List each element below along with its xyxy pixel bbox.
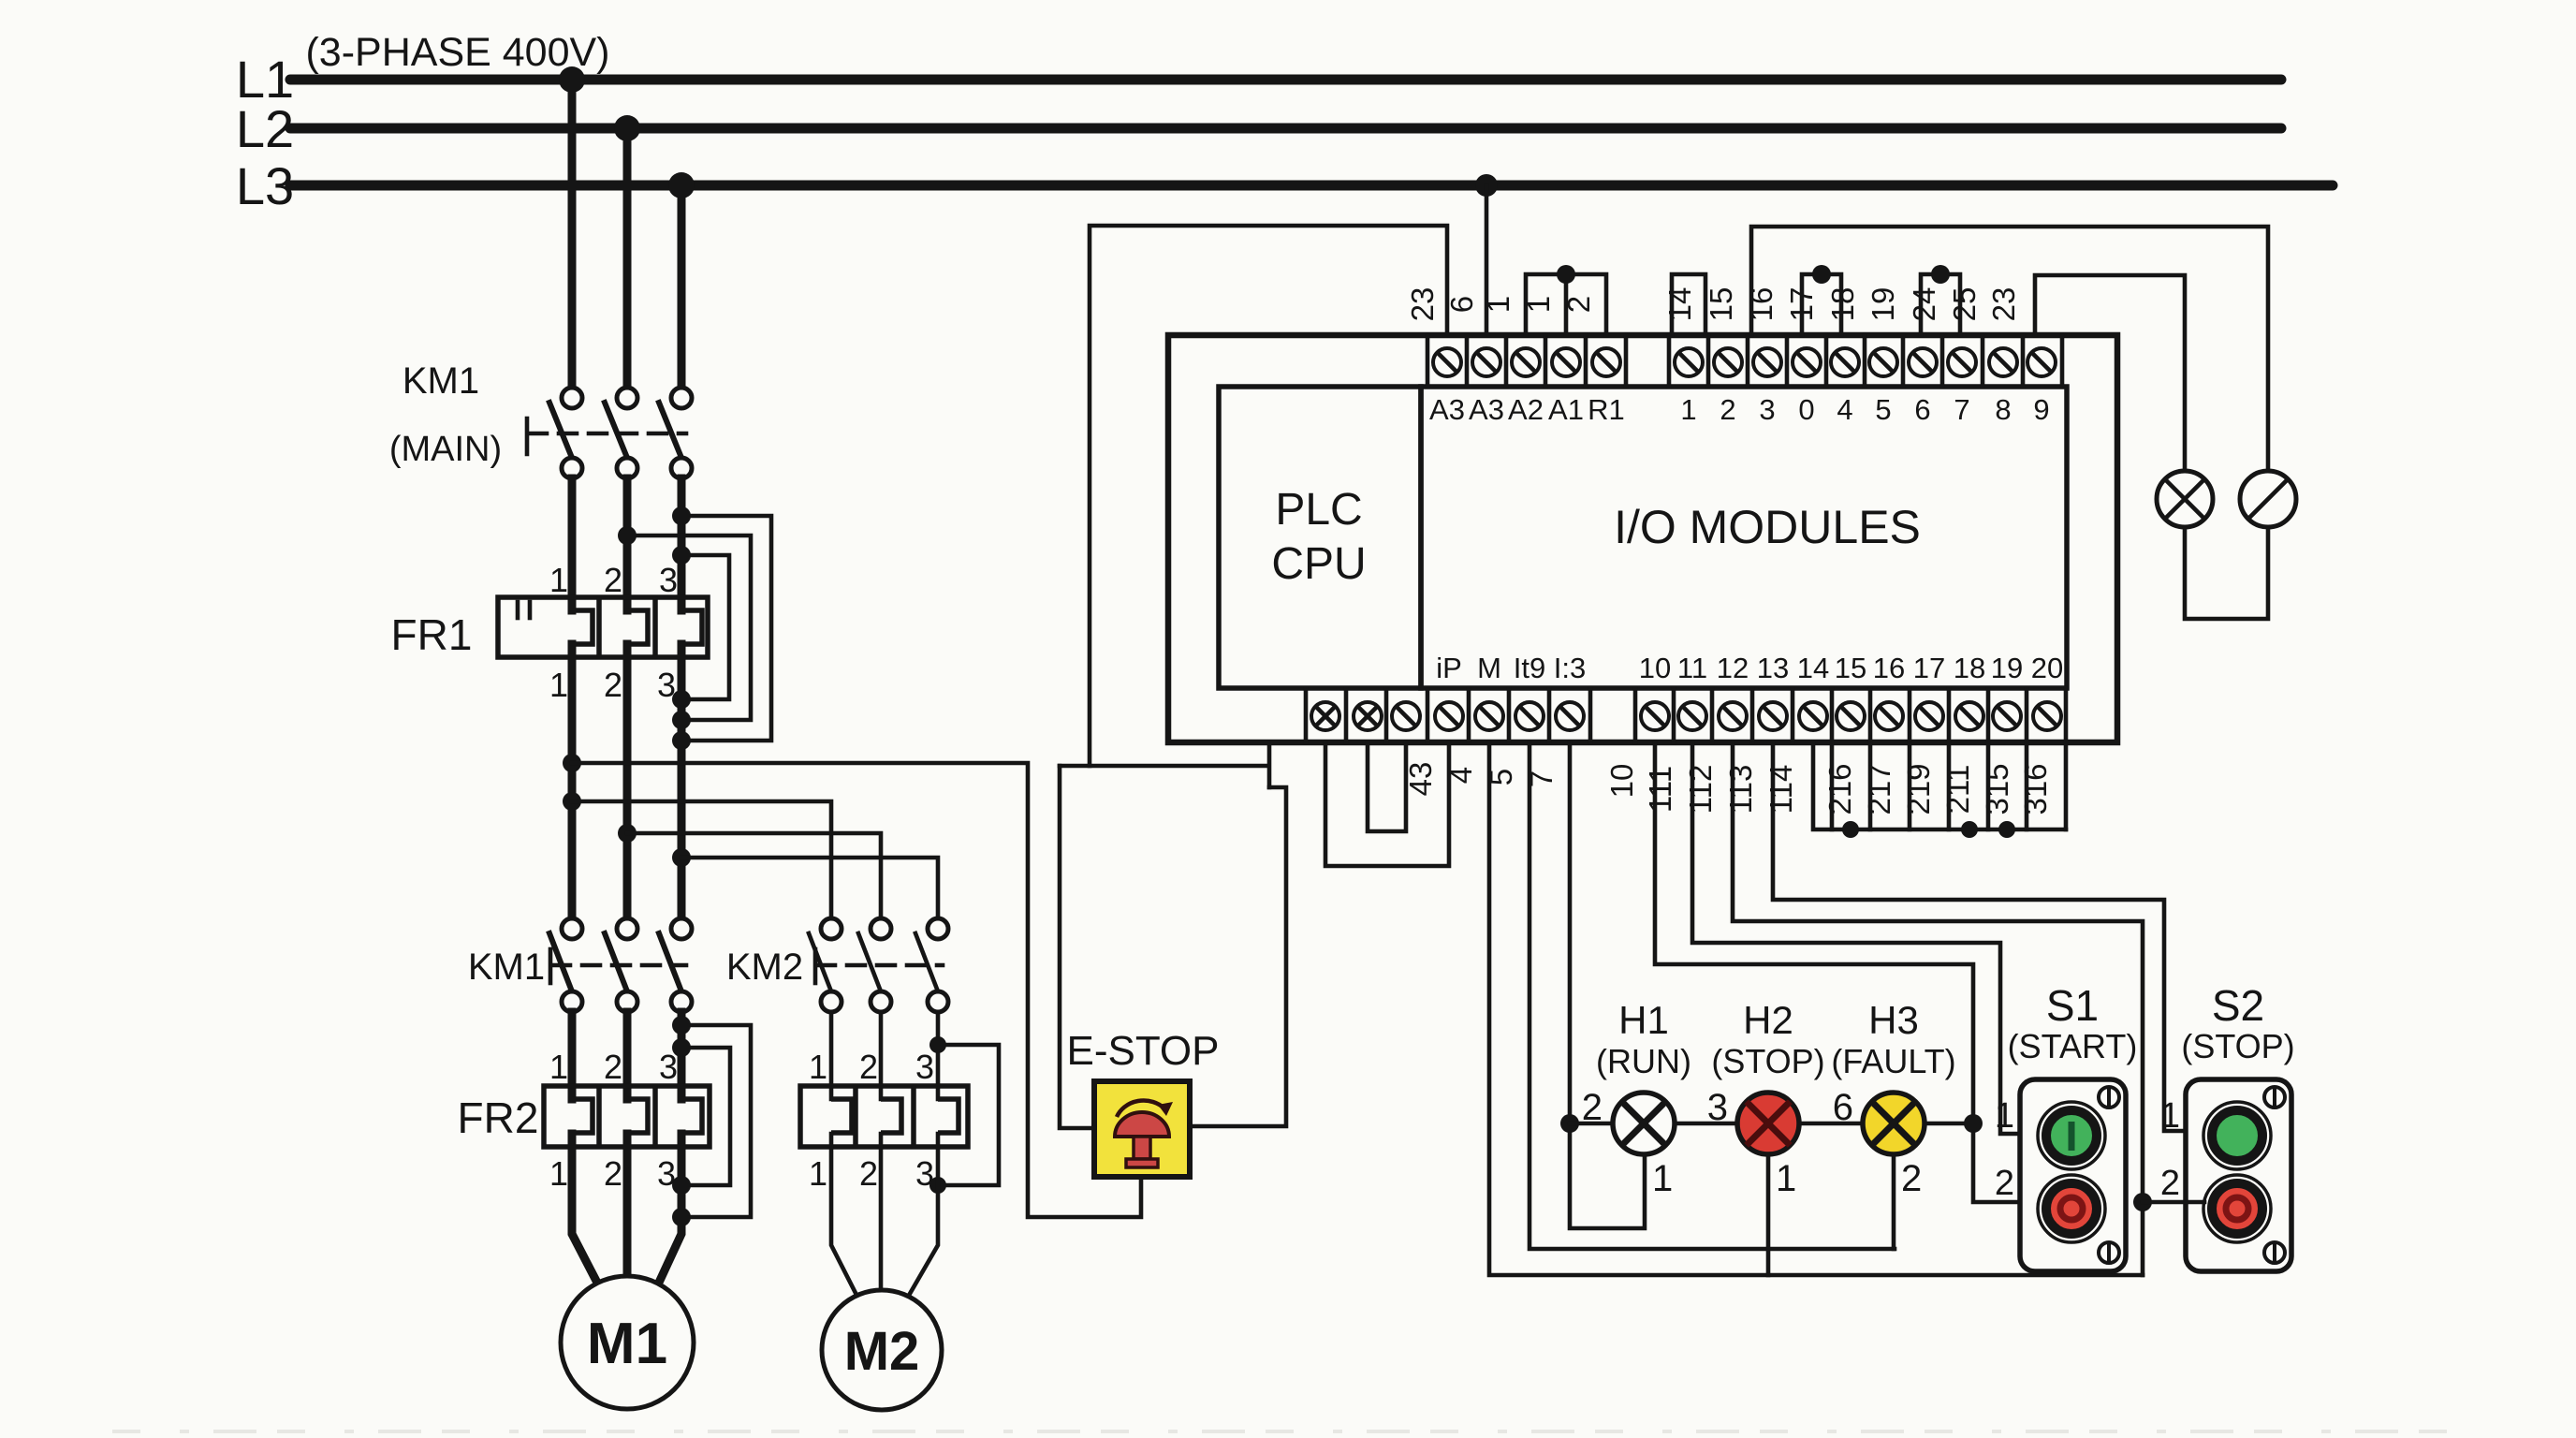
svg-text:2: 2 [1561, 296, 1596, 313]
svg-text:2: 2 [2160, 1164, 2180, 1203]
svg-text:5: 5 [1484, 769, 1518, 785]
wire pole3 FR1 to KM1 [678, 644, 686, 918]
wire FR2 bypass loop inner (pole3) [672, 1038, 730, 1195]
svg-text:16: 16 [1744, 287, 1778, 322]
wire pole1 FR1 to KM1 [568, 644, 577, 918]
svg-text:KM2: KM2 [726, 946, 803, 988]
wire lamp row [1570, 1122, 1973, 1126]
svg-text:112: 112 [1683, 765, 1718, 814]
svg-text:S1: S1 [2046, 981, 2099, 1030]
svg-text:114: 114 [1764, 765, 1798, 814]
KM2 actuator bar [813, 949, 818, 983]
svg-text:43: 43 [1403, 762, 1438, 797]
KM1 actuator bar [549, 949, 553, 983]
node lamp row right (10) [1964, 1114, 1983, 1133]
wire S2 red button feed [2143, 1200, 2204, 1205]
KM1 main actuator bar [525, 418, 530, 454]
svg-text:2: 2 [859, 1048, 878, 1086]
wire pole1 to E-STOP bottom [572, 763, 1141, 1217]
wire terminal 14 stub box [1672, 274, 1705, 335]
wire KM2 pole3 to overload [936, 1012, 941, 1099]
lamp H1 (RUN) [1613, 1093, 1675, 1154]
svg-text:L2: L2 [236, 99, 294, 158]
svg-text:13: 13 [1757, 652, 1789, 684]
PLC top pin labels A3 A3 A2 A1 R1 [1429, 393, 1625, 426]
svg-text:5: 5 [1875, 393, 1891, 426]
svg-text:2: 2 [604, 666, 622, 704]
svg-text:3: 3 [1759, 393, 1775, 426]
wire pole3 to KM2 pole3 [681, 858, 938, 918]
wire L3 drop [678, 185, 686, 388]
wire output 113 to S2 button 1 [1773, 742, 2204, 1131]
motor M1 [561, 1276, 694, 1409]
PLC top terminal cell dividers [1427, 335, 2062, 387]
overload relay FR1 [391, 561, 708, 704]
wire L3 to PLC terminal 6 [1485, 185, 1489, 335]
svg-text:11: 11 [1677, 652, 1707, 684]
svg-text:2: 2 [1582, 1087, 1603, 1128]
wire E-STOP right to PLC bottom [1190, 787, 1286, 1126]
svg-text:7: 7 [1954, 393, 1969, 426]
lamp P1 (crossed) [2157, 471, 2213, 527]
svg-text:1: 1 [1680, 393, 1696, 426]
svg-text:FR1: FR1 [391, 610, 473, 659]
wire terminal U-link screws 2-3 [1368, 742, 1406, 831]
svg-text:2: 2 [1720, 393, 1735, 426]
decorative scan noise [112, 1430, 2481, 1433]
wire outputs 216-316 cells [1813, 742, 2066, 838]
svg-text:4: 4 [1443, 767, 1478, 784]
svg-text:23: 23 [1986, 287, 2021, 322]
svg-text:15: 15 [1704, 287, 1738, 322]
KM1 main pole 1 [549, 388, 582, 478]
PLC bottom pin labels 10..20 [1639, 652, 2063, 684]
svg-text:2: 2 [604, 1048, 622, 1086]
node L3 tap [668, 172, 695, 198]
wire output 5 to H3 bottom [1529, 742, 1895, 1249]
wire FR2 bypass loop outer (pole3) [672, 1016, 751, 1226]
contactor KM2 [726, 918, 948, 1012]
wire terminal 24-25 bracket [1921, 265, 1960, 335]
wire FR1 bypass loop A (pole3) [672, 506, 771, 750]
wire pole2 FR1 to KM1 [623, 644, 632, 918]
KM1 main pole 2 [605, 388, 637, 478]
wire FR1 bypass loop C (pole3) [672, 546, 729, 709]
svg-text:iP: iP [1436, 652, 1462, 684]
svg-text:8: 8 [1995, 393, 2011, 426]
wire E-STOP tee at PLC bottom [1060, 742, 1269, 787]
svg-text:PLC: PLC [1275, 485, 1362, 535]
node S2 red button junction [2133, 1193, 2152, 1211]
svg-text:3: 3 [1707, 1087, 1728, 1128]
svg-text:18: 18 [1825, 287, 1860, 322]
wire overload pole2 to M2 [879, 1134, 884, 1291]
svg-text:4: 4 [1837, 393, 1852, 426]
power rail L1 [236, 50, 2281, 109]
svg-text:1: 1 [1521, 296, 1556, 313]
wire L1 drop [568, 80, 577, 388]
svg-text:216: 216 [1822, 763, 1857, 814]
svg-text:(RUN): (RUN) [1596, 1042, 1691, 1080]
wire KM1 pole2 to FR2 [623, 1012, 632, 1099]
wire KM1 pole3 to FR2 [678, 1012, 686, 1099]
svg-text:315: 315 [1980, 763, 2014, 814]
node L2 tap [614, 115, 640, 141]
wire KM1 pole1 to FR2 [568, 1012, 577, 1099]
svg-text:24: 24 [1907, 287, 1941, 322]
KM2 linkage dashed [817, 963, 943, 968]
node pole1 E-STOP tap [563, 754, 581, 772]
svg-text:14: 14 [1662, 287, 1697, 322]
svg-text:2: 2 [859, 1154, 878, 1193]
PLC bottom pin labels iP M It9 I:3 [1436, 652, 1586, 684]
svg-text:A1: A1 [1548, 393, 1584, 426]
svg-text:KM1: KM1 [402, 360, 479, 402]
wire L2 drop [623, 128, 632, 388]
node pole1 KM2 tap [563, 792, 581, 811]
svg-text:6: 6 [1444, 296, 1479, 313]
contactor KM1 (MAIN) [389, 360, 692, 478]
svg-text:3: 3 [915, 1048, 934, 1086]
svg-text:R1: R1 [1588, 393, 1625, 426]
svg-text:M1: M1 [587, 1312, 667, 1376]
svg-text:1: 1 [809, 1048, 827, 1086]
svg-text:(MAIN): (MAIN) [389, 430, 502, 469]
lamp H3 (FAULT) [1863, 1093, 1925, 1154]
svg-text:M: M [1477, 652, 1501, 684]
svg-text:2: 2 [1995, 1164, 2014, 1203]
push button station S1 (START) [1995, 981, 2137, 1271]
svg-text:A2: A2 [1508, 393, 1544, 426]
wire FR1 bypass loop B (pole2 to pole3) [618, 526, 751, 729]
lamp H2 (STOP) [1737, 1093, 1799, 1154]
power rail L3 [236, 156, 2333, 215]
PLC outer enclosure [1168, 335, 2117, 742]
wire pole3 KM1 to FR1 [678, 478, 686, 610]
KM1 pole 2 [605, 918, 637, 1012]
svg-text:1: 1 [1776, 1158, 1796, 1199]
svg-text:H2: H2 [1743, 998, 1793, 1042]
svg-text:17: 17 [1784, 287, 1819, 322]
KM1 linkage dashed [552, 963, 686, 968]
svg-text:3: 3 [657, 666, 676, 704]
svg-text:2: 2 [604, 561, 622, 599]
svg-text:M2: M2 [844, 1321, 920, 1382]
PLC top terminal number labels [1405, 287, 2021, 322]
svg-text:(3-PHASE 400V): (3-PHASE 400V) [305, 30, 609, 75]
svg-text:It9: It9 [1514, 652, 1545, 684]
svg-text:18: 18 [1954, 652, 1985, 684]
svg-text:12: 12 [1717, 652, 1749, 684]
wire H2 bottom stub [1766, 1154, 1771, 1275]
wire output 112 to S2 net [1733, 742, 2143, 1275]
wire FR2 pole2 to M1 [623, 1134, 632, 1277]
svg-text:9: 9 [2033, 393, 2049, 426]
svg-text:(STOP): (STOP) [1711, 1042, 1824, 1080]
svg-text:CPU: CPU [1271, 539, 1366, 589]
emergency stop E-STOP button [1094, 1081, 1190, 1177]
wire overload pole1 to M2 [831, 1134, 858, 1299]
power rail L2 [236, 99, 2281, 158]
svg-text:316: 316 [2018, 763, 2053, 814]
svg-text:FR2: FR2 [458, 1093, 539, 1142]
wire output 4 to S2 net [1489, 742, 2143, 1275]
lamp P2 (slashed) [2240, 471, 2296, 527]
svg-text:6: 6 [1833, 1087, 1853, 1128]
wire terminal 15 to lamp P2 [1751, 227, 2268, 471]
svg-text:A3: A3 [1429, 393, 1465, 426]
svg-text:3: 3 [915, 1154, 934, 1193]
svg-text:0: 0 [1798, 393, 1814, 426]
wire terminal 23 to lamp P1 [2035, 275, 2185, 471]
svg-text:6: 6 [1914, 393, 1930, 426]
svg-text:10: 10 [1639, 652, 1671, 684]
svg-text:1: 1 [809, 1154, 827, 1193]
wire KM2 pole1 to overload [829, 1012, 834, 1099]
svg-text:19: 19 [1866, 287, 1900, 322]
KM1 pole 1 [549, 918, 582, 1012]
svg-text:H3: H3 [1868, 998, 1919, 1042]
svg-text:219: 219 [1901, 763, 1936, 814]
wire pole2 to KM2 pole2 [627, 833, 881, 918]
svg-text:16: 16 [1873, 652, 1905, 684]
node lamp row left (7) [1560, 1114, 1579, 1133]
wire E-STOP left loop to PLC terminal 23 [1090, 226, 1447, 766]
overload relay FR2 [458, 1048, 710, 1193]
svg-text:17: 17 [1913, 652, 1945, 684]
KM1 main pole 3 [659, 388, 692, 478]
motor M2 [822, 1290, 942, 1410]
node pole2 KM2 tap [618, 824, 637, 843]
svg-text:23: 23 [1405, 287, 1440, 322]
wire KM2 pole2 to overload [879, 1012, 884, 1099]
svg-text:L3: L3 [236, 156, 294, 215]
svg-text:KM1: KM1 [468, 946, 545, 988]
svg-text:H1: H1 [1618, 998, 1669, 1042]
svg-text:S2: S2 [2212, 981, 2264, 1030]
svg-text:1: 1 [1481, 296, 1515, 313]
KM2 pole 1 [809, 918, 842, 1012]
wire terminal U-link screws 1-4 (43) [1325, 742, 1449, 866]
svg-text:7: 7 [1524, 770, 1559, 787]
KM2 pole 3 [915, 918, 948, 1012]
wire pole1 KM1 to FR1 [568, 478, 577, 610]
KM1 main linkage dashed [529, 432, 686, 436]
wire E-STOP left drop [1060, 766, 1094, 1128]
wire H3 bottom stub [1892, 1154, 1896, 1249]
PLC bottom terminal number labels [1403, 762, 2053, 815]
wire overload pole3 to M2 [907, 1134, 938, 1299]
wire M2 overload bypass loop (pole3) [929, 1036, 999, 1194]
svg-text:1: 1 [1652, 1158, 1673, 1199]
svg-text:1: 1 [549, 1048, 568, 1086]
wire FR2 pole1 to M1 [572, 1134, 599, 1286]
node L3 to PLC tap [1475, 174, 1498, 197]
svg-text:211: 211 [1940, 765, 1975, 814]
svg-text:10: 10 [1604, 764, 1639, 799]
svg-text:217: 217 [1862, 763, 1896, 814]
node pole3 KM2 tap [672, 848, 691, 867]
wire terminal 17-18 bracket [1802, 265, 1841, 335]
node L1 tap [559, 66, 585, 93]
wire output 10 to lamp row and S1 button 2 [1655, 742, 2039, 1202]
push button station S2 (STOP) [2160, 981, 2295, 1271]
contactor KM1 (lower) [468, 918, 692, 1012]
overload relay M2 branch [800, 1048, 968, 1193]
svg-text:2: 2 [604, 1154, 622, 1193]
svg-text:E-STOP: E-STOP [1066, 1028, 1219, 1074]
PLC top pin labels 1 2 3 0 4 5 6 7 8 9 [1680, 393, 2049, 426]
KM2 pole 2 [858, 918, 891, 1012]
wire terminal 6 bracket (pins 1 1 2) [1526, 265, 1606, 335]
svg-text:15: 15 [1835, 652, 1866, 684]
PLC top terminal screws [1433, 348, 2056, 376]
wire output 7 to H1 [1570, 742, 1645, 1228]
svg-text:3: 3 [659, 561, 678, 599]
wire FR2 pole3 to M1 [658, 1134, 681, 1284]
wire output 111 to S1 button 1 [1692, 742, 2039, 1134]
wire lamps bottom link [2185, 527, 2268, 619]
svg-text:(START): (START) [2008, 1027, 2138, 1065]
svg-text:1: 1 [549, 561, 568, 599]
PLC CPU box [1219, 387, 1421, 688]
svg-text:1: 1 [549, 1154, 568, 1193]
svg-text:(FAULT): (FAULT) [1831, 1042, 1955, 1080]
svg-text:2: 2 [1901, 1158, 1922, 1199]
PLC bottom terminal screws [1311, 702, 2061, 730]
svg-text:3: 3 [659, 1048, 678, 1086]
svg-text:25: 25 [1947, 287, 1982, 322]
svg-text:(STOP): (STOP) [2181, 1027, 2294, 1065]
svg-text:20: 20 [2031, 652, 2063, 684]
svg-text:1: 1 [549, 666, 568, 704]
svg-text:113: 113 [1723, 765, 1758, 814]
svg-text:I:3: I:3 [1554, 652, 1586, 684]
svg-text:1: 1 [2160, 1096, 2180, 1136]
svg-text:3: 3 [657, 1154, 676, 1193]
wire pole2 KM1 to FR1 [623, 478, 632, 610]
svg-text:A3: A3 [1469, 393, 1504, 426]
PLC bottom terminal cell dividers [1306, 688, 2066, 742]
KM1 pole 3 [659, 918, 692, 1012]
svg-text:111: 111 [1643, 766, 1677, 813]
svg-text:1: 1 [1995, 1096, 2014, 1136]
wire pole1 to KM2 pole1 [572, 801, 831, 918]
PLC I/O MODULES box [1421, 387, 2067, 688]
svg-text:I/O MODULES: I/O MODULES [1614, 501, 1921, 553]
svg-text:14: 14 [1797, 652, 1829, 684]
svg-text:19: 19 [1991, 652, 2023, 684]
